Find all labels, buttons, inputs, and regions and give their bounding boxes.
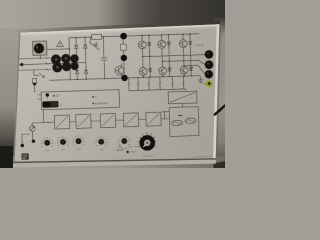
svg-text:acc/function: acc/function (95, 102, 109, 105)
driver bus (129, 89, 186, 93)
inverter transistor Q5 (159, 67, 167, 75)
signal chain wire (32, 119, 169, 123)
dark bottom-right corner (214, 161, 226, 168)
node bridge col1 mid (76, 54, 78, 63)
arrow symbol (39, 73, 44, 78)
bridge diode D3 (75, 63, 79, 80)
panel top edge highlight (19, 24, 220, 34)
gate drive lines to driver bus (129, 76, 184, 91)
Q3 leg (182, 47, 185, 66)
frequency knob big (138, 132, 157, 151)
electrolytic capacitors bank (photo) (51, 53, 79, 72)
brake resistor R2 (120, 44, 126, 50)
inverter transistor Q4 (139, 67, 147, 75)
ground symbol PE (198, 77, 206, 84)
Q1 leg (141, 49, 144, 68)
capacitor highlight dots (55, 57, 68, 68)
fuse box F1 (32, 78, 36, 83)
svg-text:CR: CR (55, 95, 59, 98)
phase wire U (143, 55, 206, 57)
bridge diode D2 (83, 37, 87, 53)
oscillator input stubs (162, 112, 169, 119)
Q4 emitter stub (142, 75, 144, 77)
label CR with LED (53, 95, 55, 97)
charging resistor R1 on rail (92, 34, 102, 39)
bridge left vertical wire (69, 38, 70, 80)
manufacturer logo (21, 153, 28, 159)
bus slash marks (128, 81, 185, 85)
potentiometer knob P3 (57, 136, 70, 146)
input socket L (20, 63, 23, 66)
output terminal U (205, 50, 214, 59)
junction node dots (39, 33, 192, 81)
oscillator sine symbol 2 (185, 118, 196, 124)
panel bottom edge dark line (13, 158, 216, 163)
DC+ terminal socket (120, 33, 127, 40)
Q1 collector stub (141, 36, 143, 42)
rotary switch pointer (38, 44, 40, 49)
black cable at right background (215, 106, 225, 115)
svg-text:off: off (60, 105, 63, 107)
oscillator sine symbol 1 (172, 120, 183, 126)
wire L input top (19, 57, 77, 59)
block A5 (146, 112, 161, 126)
block A3 (100, 114, 115, 128)
oscillator box (169, 107, 199, 137)
aux socket (21, 144, 25, 148)
small mark in oscillator box (179, 114, 182, 116)
rotary switch S1 plate (33, 41, 47, 55)
control section box (41, 90, 120, 110)
wire to socket (22, 134, 30, 144)
panel right edge bright strip (213, 24, 220, 158)
tick on chain input (47, 121, 50, 124)
rotary switch knob (34, 43, 45, 54)
smoothing capacitor symbol C1 (100, 37, 107, 79)
inverter transistor Q6 (180, 66, 188, 74)
potentiometer knob P4 (72, 136, 85, 146)
reference potentiometer symbol P1 (29, 126, 35, 132)
control LED socket (46, 93, 50, 97)
block A4 (123, 113, 138, 127)
DC mid terminal socket (121, 55, 128, 62)
bridge diode D1 (74, 38, 78, 54)
top rail DC+ (69, 34, 199, 38)
potentiometer knob P6 (118, 135, 131, 145)
output terminal W (205, 70, 214, 79)
background left rail (0, 28, 22, 168)
svg-text:+ U V W: + U V W (194, 45, 204, 47)
inverter transistor Q3 (179, 40, 187, 48)
wire control box to ramp chain (42, 110, 44, 123)
wire left vertical to arrow (34, 70, 39, 76)
block A2 (76, 114, 91, 128)
potentiometer socket (32, 139, 36, 143)
bottom tiny marks (128, 147, 139, 152)
bridge diode D4 (84, 62, 88, 79)
Q3 collector stub (182, 34, 184, 40)
wire switch output right (47, 48, 69, 51)
gap shadow right of panel (216, 24, 221, 158)
inverter transistor Q1 (138, 41, 146, 49)
wire N input mid (19, 63, 86, 65)
wire input lower (19, 69, 51, 70)
inverter transistor Q2 (158, 40, 166, 48)
phase wire V (162, 60, 205, 66)
freewheel diode column D6 (167, 35, 172, 77)
DC link vertical wire (123, 36, 124, 78)
PE terminal green-yellow (205, 80, 213, 88)
warning triangle (57, 41, 64, 47)
Q6 emitter stub (183, 74, 185, 76)
knob pointer (144, 145, 146, 147)
freewheel diode column D5 (147, 35, 152, 77)
wire modulator to oscillator box (181, 103, 183, 107)
freewheel diode column D7 (188, 34, 193, 76)
Q2 collector stub (160, 35, 162, 41)
label acc function with LED (92, 102, 94, 104)
node bridge col2 mid (85, 54, 87, 63)
bottom rail light strip below panel (13, 160, 216, 168)
potentiometer knob P2 (41, 137, 54, 147)
socket below fuse (33, 82, 36, 85)
brake chopper transistor Q7 (115, 66, 124, 75)
knob sublabels (45, 148, 126, 152)
wire from fuse to control box (34, 85, 36, 92)
potentiometer knob P5 (95, 136, 108, 146)
Q2 leg (161, 48, 164, 67)
background below panel (0, 156, 225, 168)
background wall (0, 0, 225, 40)
wire switch drop (39, 55, 41, 58)
background right gap (214, 18, 225, 168)
panel face (13, 24, 219, 162)
dark bottom-left corner (0, 146, 13, 168)
small warning triangle bottom (117, 146, 123, 151)
panel top side face (18, 21, 220, 34)
output terminal V (205, 60, 214, 69)
PWM modulator block (168, 91, 197, 104)
DC- terminal socket (121, 75, 128, 82)
Q5 emitter stub (162, 74, 164, 76)
control box input stubs (38, 95, 41, 100)
slide switch S2 (42, 101, 58, 108)
bypass diode under R1 (90, 37, 100, 50)
ramp generator block A1 (54, 115, 69, 129)
bottom rail DC- (49, 76, 200, 81)
fuse tick on wire L (46, 57, 49, 71)
panel left edge shadow line (13, 33, 20, 162)
label in with LED (92, 96, 94, 98)
phase wire W (184, 65, 205, 74)
